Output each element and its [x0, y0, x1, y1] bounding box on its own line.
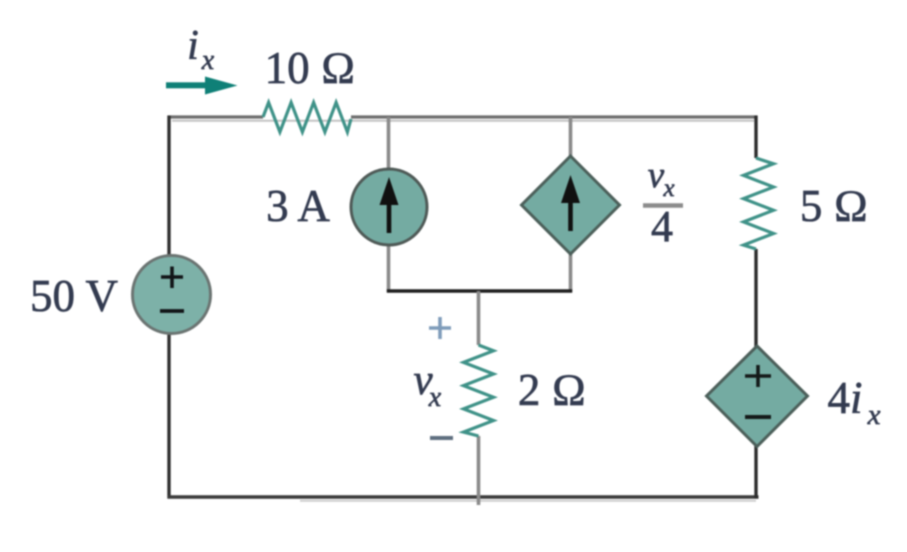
minus sign of 4ix source [745, 415, 771, 419]
minus sign of 50V source [160, 309, 184, 313]
wire bottom [168, 495, 759, 499]
svg-text:x: x [867, 399, 881, 431]
resistor 5 ohm zigzag [744, 158, 774, 249]
svg-text:3 A: 3 A [266, 181, 330, 231]
current source 3A circle [351, 169, 427, 245]
arrow of dependent current source [561, 175, 580, 231]
svg-text:4: 4 [651, 202, 673, 251]
label minus of vx [430, 436, 453, 440]
dependent voltage source diamond 4ix [707, 346, 808, 447]
label vx/4 fraction [643, 155, 683, 251]
svg-text:4i: 4i [827, 373, 862, 423]
wire stub top of dependent current source [569, 117, 573, 157]
svg-text:i: i [187, 23, 199, 69]
wire stub top of 3A source [387, 117, 391, 170]
wire right vertical lower [754, 445, 757, 499]
wire stub bottom of dependent current source [569, 253, 573, 292]
wire left vertical lower [167, 334, 170, 499]
wire top shadow [172, 120, 754, 122]
dependent current source diamond vx/4 [522, 156, 620, 254]
svg-text:x: x [428, 382, 442, 413]
svg-text:5 Ω: 5 Ω [800, 181, 868, 231]
wire top right (resistor 10ohm to top-right corner) [351, 115, 758, 118]
svg-text:x: x [201, 45, 215, 76]
wire bottom shadow [300, 500, 756, 502]
current label ix arrow [166, 77, 238, 95]
svg-text:v: v [648, 155, 665, 196]
wire left vertical [167, 116, 170, 259]
svg-text:x: x [662, 175, 674, 202]
wire stub bottom of 2ohm resistor [477, 436, 481, 505]
label plus of vx [429, 317, 451, 339]
wire right vertical upper [754, 116, 757, 159]
svg-text:10 Ω: 10 Ω [265, 43, 356, 93]
resistor 2 ohm zigzag [464, 345, 494, 436]
wire top left (node A to resistor 10ohm) [168, 115, 264, 118]
resistor 10 ohm zigzag [263, 103, 351, 133]
wire stub bottom of 3A source [387, 244, 391, 292]
plus sign of 4ix source [745, 365, 771, 387]
wire middle horizontal node [387, 289, 572, 293]
wire stub top of 2ohm resistor [477, 291, 481, 345]
arrow of 3A source [380, 177, 399, 233]
wire right vertical middle [754, 249, 757, 347]
plus sign of 50V source [161, 267, 183, 289]
svg-text:50 V: 50 V [30, 271, 118, 321]
svg-text:2 Ω: 2 Ω [518, 365, 586, 415]
voltage source 50V circle [133, 256, 211, 334]
